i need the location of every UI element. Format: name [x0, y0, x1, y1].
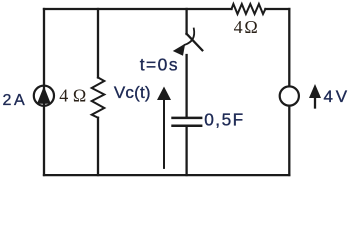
- wire capacitor branch bottom: [185, 127, 187, 175]
- wire left branch: [43, 9, 45, 175]
- svg-text:4Ω: 4Ω: [59, 86, 86, 106]
- wire bottom: [44, 174, 289, 176]
- switch S1 blade: [187, 34, 203, 51]
- wire resistor branch upper: [97, 9, 99, 78]
- switch S1 arc: [185, 29, 194, 45]
- voltage source V1 circle: [280, 86, 299, 105]
- svg-text:Vc(t): Vc(t): [114, 83, 151, 102]
- wire capacitor branch mid: [185, 55, 187, 117]
- svg-text:4Ω: 4Ω: [234, 17, 258, 37]
- current source I1 arrow: [37, 86, 51, 103]
- wire resistor branch lower: [97, 118, 99, 175]
- svg-text:t=0s: t=0s: [140, 54, 179, 74]
- resistor R1 4ohm vertical zigzag: [92, 78, 105, 118]
- wire top-left segment: [44, 8, 232, 10]
- wire top-right segment: [265, 8, 289, 10]
- resistor R2 4ohm top zigzag: [232, 4, 266, 14]
- capacitor C1 top plate: [171, 117, 202, 120]
- Vc(t) arrow head: [157, 87, 171, 101]
- svg-text:4V: 4V: [324, 87, 348, 106]
- svg-text:2A: 2A: [3, 92, 26, 109]
- Vc(t) arrow tail: [163, 98, 165, 168]
- current source I1 circle: [34, 86, 54, 106]
- capacitor C1 bottom plate: [171, 125, 202, 128]
- wire right branch lower: [288, 105, 290, 175]
- voltage source V1 arrow tail: [314, 97, 316, 108]
- switch S1 arrow head: [173, 44, 185, 56]
- wire capacitor branch top: [185, 9, 187, 34]
- wire right branch upper: [288, 9, 290, 87]
- svg-text:0,5F: 0,5F: [204, 109, 245, 129]
- voltage source V1 arrow head: [309, 84, 321, 98]
